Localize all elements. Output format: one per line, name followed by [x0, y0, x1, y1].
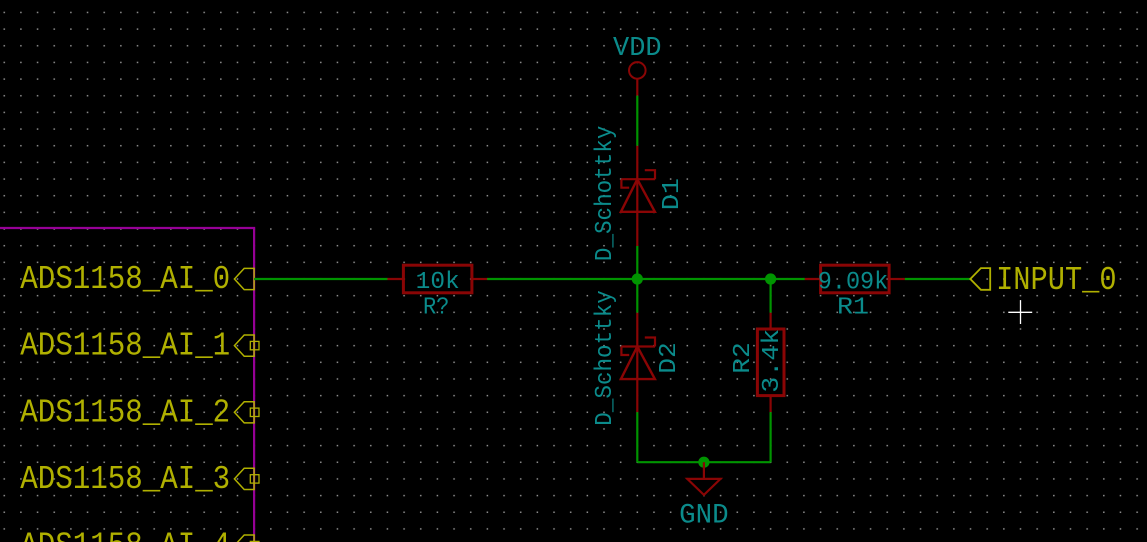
- svg-text:D1: D1: [659, 178, 686, 210]
- svg-text:10k: 10k: [416, 269, 460, 296]
- wire D1 to node A: [636, 246, 638, 279]
- resistor R1 9.09k: [805, 265, 905, 321]
- sheet pin ADS1158_AI_2: [234, 402, 259, 423]
- resistor R2 3.4k: [730, 313, 786, 413]
- svg-text:R2: R2: [730, 342, 757, 374]
- svg-text:INPUT_0: INPUT_0: [996, 262, 1117, 299]
- diode D2 D_Schottky: [621, 313, 655, 413]
- hierarchical label INPUT_0: [970, 262, 1116, 299]
- wire R? to R1 through junctions: [487, 278, 805, 280]
- resistor R? 10k: [387, 265, 487, 321]
- svg-text:R1: R1: [837, 295, 869, 322]
- svg-text:D_Schottky: D_Schottky: [592, 126, 619, 262]
- wire bottom rail: [637, 461, 770, 463]
- wire node A to D2: [636, 279, 638, 313]
- wire D2 to bottom rail: [636, 412, 638, 462]
- svg-text:ADS1158_AI_2: ADS1158_AI_2: [20, 394, 230, 431]
- power symbol GND: [679, 462, 729, 531]
- sheet pin ADS1158_AI_4 (partial at bottom): [234, 535, 259, 542]
- sheet pin ADS1158_AI_1: [234, 335, 259, 356]
- wire sheet pin to R?: [254, 278, 387, 280]
- svg-text:D_Schottky: D_Schottky: [592, 290, 619, 426]
- diode D1 D_Schottky: [621, 146, 655, 246]
- wire node B to R2: [769, 279, 771, 313]
- svg-text:ADS1158_AI_3: ADS1158_AI_3: [20, 461, 230, 498]
- sheet pin ADS1158_AI_3: [234, 468, 259, 489]
- svg-text:ADS1158_AI_0: ADS1158_AI_0: [20, 261, 230, 298]
- wire R2 to bottom rail: [769, 412, 771, 462]
- sheet pin ADS1158_AI_0: [234, 268, 254, 289]
- sheet ADS1158 border: [0, 228, 254, 542]
- junction node A: [632, 273, 643, 284]
- junction node B: [765, 273, 776, 284]
- wire R1 to hierarchical label: [905, 278, 970, 280]
- junction node C: [698, 457, 709, 468]
- power symbol VDD: [613, 34, 662, 96]
- wire VDD to D1: [636, 96, 638, 146]
- svg-text:ADS1158_AI_4: ADS1158_AI_4: [20, 528, 230, 542]
- svg-text:D2: D2: [656, 342, 683, 374]
- svg-text:GND: GND: [679, 501, 729, 532]
- svg-text:R?: R?: [423, 294, 450, 321]
- cursor crosshair: [1008, 300, 1032, 324]
- svg-text:ADS1158_AI_1: ADS1158_AI_1: [20, 328, 230, 365]
- svg-text:9.09k: 9.09k: [818, 267, 889, 296]
- svg-text:3.4k: 3.4k: [759, 329, 786, 393]
- svg-text:VDD: VDD: [613, 34, 662, 64]
